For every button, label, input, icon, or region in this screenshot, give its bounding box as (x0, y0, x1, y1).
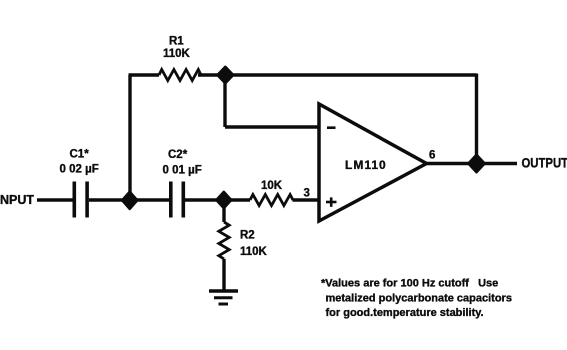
svg-text:for good.temperature stability: for good.temperature stability. (326, 307, 484, 319)
svg-text:metalized polycarbonate capaci: metalized polycarbonate capacitors (326, 292, 512, 304)
svg-text:R1: R1 (169, 36, 184, 48)
svg-text:110K: 110K (240, 246, 268, 258)
svg-text:OUTPUT: OUTPUT (522, 155, 567, 170)
svg-text:R2: R2 (240, 230, 255, 242)
svg-text:*Values are for 100 Hz cutoff: *Values are for 100 Hz cutoff Use (321, 278, 498, 290)
svg-text:C1*: C1* (70, 149, 90, 161)
svg-text:10K: 10K (261, 180, 283, 192)
svg-text:0 02 µF: 0 02 µF (60, 164, 99, 176)
svg-text:LM110: LM110 (345, 158, 387, 172)
svg-text:C2*: C2* (168, 149, 188, 161)
svg-text:3: 3 (304, 188, 310, 200)
svg-text:110K: 110K (163, 48, 191, 60)
svg-text:NPUT: NPUT (0, 193, 34, 207)
svg-text:0 01 µF: 0 01 µF (163, 165, 202, 177)
svg-text:6: 6 (429, 150, 435, 162)
